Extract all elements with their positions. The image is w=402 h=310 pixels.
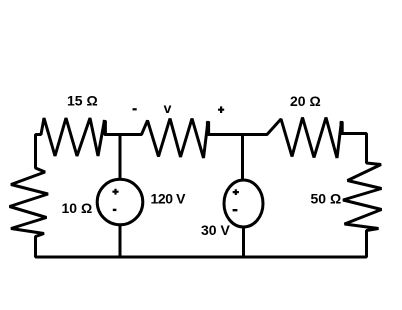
svg-text:15 Ω: 15 Ω bbox=[67, 93, 98, 109]
svg-text:10 Ω: 10 Ω bbox=[62, 200, 93, 216]
svg-text:50 Ω: 50 Ω bbox=[311, 191, 342, 207]
svg-text:30 V: 30 V bbox=[201, 222, 230, 238]
svg-text:120 V: 120 V bbox=[151, 191, 187, 207]
svg-text:v: v bbox=[164, 100, 172, 116]
svg-text:20 Ω: 20 Ω bbox=[290, 93, 321, 109]
